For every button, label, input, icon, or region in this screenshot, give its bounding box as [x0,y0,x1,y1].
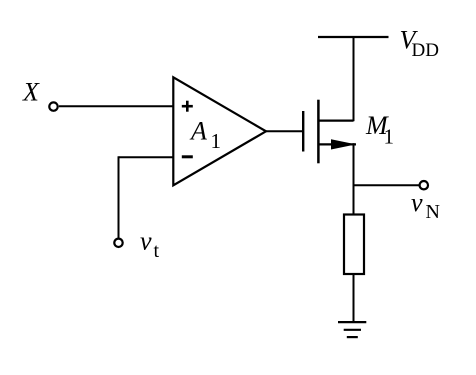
label V_DD [400,26,439,62]
svg-text:v: v [411,188,423,217]
resistor R (load) [344,215,364,275]
wire drain to VDD rail [353,37,355,121]
label v_t [140,227,160,262]
svg-text:A: A [189,117,207,146]
terminal v_N [420,181,428,189]
wire node to v_N terminal [354,184,420,186]
VDD supply rail [318,36,389,38]
op-amp A1 triangle [173,77,266,185]
wire op-amp output to gate [266,130,302,132]
svg-text:N: N [426,201,440,223]
wire X to non-inverting input [59,105,174,107]
transistor M1 [303,100,356,164]
label A1 [189,117,221,154]
wire inverting input [119,156,174,158]
svg-text:X: X [22,78,40,107]
label v_N [411,188,440,223]
svg-text:1: 1 [211,129,222,153]
wire v_t vertical [118,156,120,238]
svg-text:1: 1 [384,124,395,148]
svg-text:v: v [140,227,152,256]
wire source down to resistor [353,143,355,215]
ground [338,322,366,337]
op-amp minus input mark [182,155,193,158]
wire resistor to ground [353,274,355,322]
label M1 [365,111,394,148]
svg-text:DD: DD [412,40,439,61]
terminal v_t [114,239,122,247]
op-amp plus input mark [182,101,193,112]
svg-text:t: t [154,240,160,262]
terminal X [49,102,57,110]
